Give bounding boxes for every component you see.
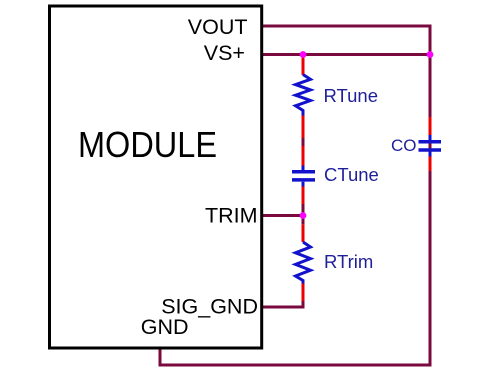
svg-text:TRIM: TRIM (205, 204, 258, 228)
svg-text:CO: CO (391, 136, 417, 155)
svg-text:RTrim: RTrim (324, 251, 373, 272)
svg-text:MODULE: MODULE (78, 124, 217, 165)
svg-text:VS+: VS+ (204, 41, 245, 65)
svg-text:GND: GND (141, 315, 189, 339)
svg-text:RTune: RTune (324, 85, 379, 106)
svg-text:CTune: CTune (324, 164, 379, 185)
svg-text:VOUT: VOUT (188, 15, 248, 39)
